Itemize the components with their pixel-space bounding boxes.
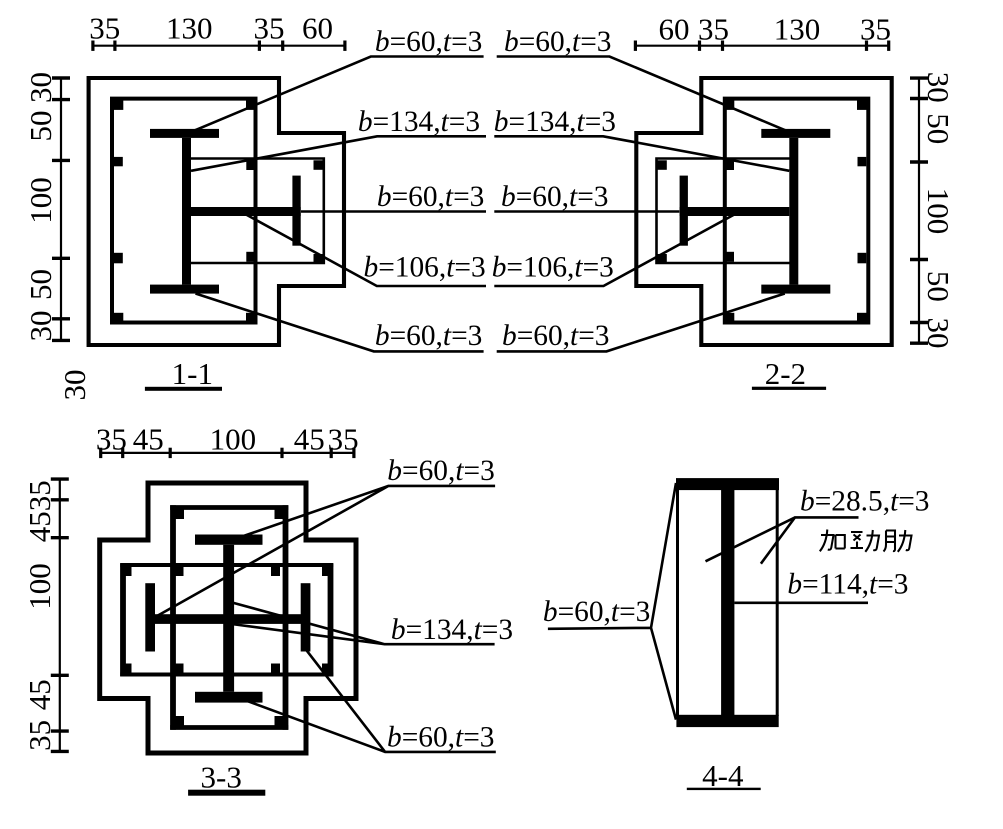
dimension line top of 3-3: 35 45 100 45 35 xyxy=(100,452,355,454)
svg-text:b=60,t=3: b=60,t=3 xyxy=(387,455,494,487)
outer concrete outline section 1-1 xyxy=(89,78,344,345)
steel tube liner horizontal section 3-3 xyxy=(120,565,333,675)
svg-text:b=60,t=3: b=60,t=3 xyxy=(375,26,482,58)
I-beam vertical web b=134 section 3-3 xyxy=(223,545,234,692)
svg-text:35: 35 xyxy=(89,11,120,46)
leader: flanges 3-3 bottom b=60,t=3 (two arrows) xyxy=(244,650,496,752)
svg-text:b=60,t=3: b=60,t=3 xyxy=(543,596,650,628)
section 1-1 body xyxy=(89,78,344,345)
svg-text:b=134,t=3: b=134,t=3 xyxy=(391,614,513,646)
leader: stiffeners 4-4 b=28.5,t=3 (two arrows) xyxy=(706,517,859,563)
steel tube liner (main) section 2-2 xyxy=(725,99,869,323)
leader: bottom flange 2-2 b=60,t=3 xyxy=(497,294,785,352)
I-beam vertical bottom flange b=60 section 2-2 xyxy=(761,285,830,294)
I-beam vertical top flange b=60 section 3-3 xyxy=(195,535,263,545)
leader: bottom flange 1-1 b=60,t=3 xyxy=(196,294,484,352)
svg-text:b=60,t=3: b=60,t=3 xyxy=(501,181,608,213)
I-beam horizontal web b=106 section 2-2 xyxy=(680,207,790,216)
svg-text:1-1: 1-1 xyxy=(172,356,213,391)
I-beam horizontal flange b=60 section 2-2 xyxy=(680,176,688,246)
leader: web 2-2 b=134,t=3 xyxy=(494,136,789,171)
svg-text:30: 30 xyxy=(57,370,92,401)
stiffener text (hand-drawn hanzi) xyxy=(820,530,912,552)
dimension line left of 1-1: 30 50 100 50 30 xyxy=(60,77,62,341)
leader: top flange 2-2 b=60,t=3 xyxy=(497,57,786,131)
svg-text:35: 35 xyxy=(22,480,57,511)
svg-text:30: 30 xyxy=(921,72,956,103)
svg-text:b=60,t=3: b=60,t=3 xyxy=(375,320,482,352)
svg-text:100: 100 xyxy=(23,177,58,224)
svg-text:130: 130 xyxy=(774,12,821,47)
svg-text:30: 30 xyxy=(921,318,956,349)
svg-text:35: 35 xyxy=(328,421,359,456)
svg-text:3-3: 3-3 xyxy=(201,760,242,795)
svg-text:60: 60 xyxy=(302,11,333,46)
leader: flanges 4-4 b=60,t=3 (two arrows) xyxy=(548,483,676,720)
leader: top flange 1-1 b=60,t=3 xyxy=(195,57,484,131)
section 2-2 body (mirror of 1-1) xyxy=(636,78,891,345)
svg-text:50: 50 xyxy=(23,269,58,300)
I-beam horizontal web b=134 section 3-3 xyxy=(150,614,307,624)
svg-text:2-2: 2-2 xyxy=(765,356,806,391)
dimension line right of 2-2: 30 50 100 50 30 xyxy=(918,77,920,344)
svg-text:b=28.5,t=3: b=28.5,t=3 xyxy=(800,486,930,518)
leader: web 1-1 b=134,t=3 xyxy=(191,136,486,171)
leader: webs 3-3 b=134,t=3 (two arrows) xyxy=(232,603,495,645)
I-beam horizontal flange b=60 section 1-1 xyxy=(292,176,300,246)
svg-text:b=60,t=3: b=60,t=3 xyxy=(504,26,611,58)
svg-text:30: 30 xyxy=(23,72,58,103)
svg-text:60: 60 xyxy=(659,12,690,47)
svg-text:50: 50 xyxy=(23,111,58,142)
svg-text:b=60,t=3: b=60,t=3 xyxy=(377,181,484,213)
svg-text:100: 100 xyxy=(210,421,257,456)
svg-text:35: 35 xyxy=(96,421,127,456)
I-beam vertical web b=134 section 1-1 xyxy=(182,138,191,285)
svg-text:45: 45 xyxy=(22,511,57,542)
svg-text:100: 100 xyxy=(22,563,57,610)
outer concrete outline section 2-2 xyxy=(636,78,891,345)
dimension line top of 2-2: 60 35 130 35 xyxy=(634,45,889,47)
I-beam vertical bottom flange b=60 section 3-3 xyxy=(195,692,263,703)
svg-text:35: 35 xyxy=(254,11,285,46)
svg-text:50: 50 xyxy=(921,271,956,302)
svg-text:100: 100 xyxy=(921,188,956,235)
bottom flange plate b=60 section 4-4 xyxy=(676,715,778,727)
corner studs of tube liners section 3-3 xyxy=(123,510,332,726)
svg-text:b=106,t=3: b=106,t=3 xyxy=(492,252,614,284)
I-beam horizontal right flange b=60 section 3-3 xyxy=(301,583,311,651)
I-beam horizontal web b=106 section 1-1 xyxy=(191,207,301,216)
web plate b=114 section 4-4 xyxy=(721,484,734,721)
dimension line left of 3-3: 35 45 100 45 35 xyxy=(59,478,61,752)
top flange plate b=60 section 4-4 xyxy=(676,478,779,490)
steel tube liner vertical section 3-3 xyxy=(170,508,288,728)
I-beam vertical bottom flange b=60 section 1-1 xyxy=(150,285,219,294)
svg-text:45: 45 xyxy=(22,679,57,710)
svg-text:35: 35 xyxy=(698,12,729,47)
svg-text:45: 45 xyxy=(294,421,325,456)
svg-text:35: 35 xyxy=(860,12,891,47)
steel tube liner (main) section 1-1 xyxy=(112,99,256,323)
leader: web 4-4 b=114,t=3 xyxy=(734,601,868,604)
leader: horizontal web 2-2 b=106,t=3 xyxy=(494,215,734,287)
svg-text:b=60,t=3: b=60,t=3 xyxy=(387,722,494,754)
svg-text:b=134,t=3: b=134,t=3 xyxy=(358,106,480,138)
svg-text:35: 35 xyxy=(22,720,57,751)
svg-text:b=114,t=3: b=114,t=3 xyxy=(787,569,908,601)
I-beam vertical top flange b=60 section 2-2 xyxy=(761,129,830,138)
leader: horizontal web 1-1 b=106,t=3 xyxy=(246,215,486,287)
outer plate outline section 4-4 xyxy=(678,489,778,716)
svg-text:45: 45 xyxy=(133,421,164,456)
svg-text:130: 130 xyxy=(166,11,213,46)
svg-text:b=106,t=3: b=106,t=3 xyxy=(364,252,486,284)
svg-text:50: 50 xyxy=(921,113,956,144)
I-beam horizontal left flange b=60 section 3-3 xyxy=(145,583,155,651)
corner studs of tube liners section 2-2 xyxy=(657,100,867,322)
steel tube liner (side bump) section 2-2 xyxy=(657,159,794,264)
svg-text:b=134,t=3: b=134,t=3 xyxy=(494,106,616,138)
svg-text:b=60,t=3: b=60,t=3 xyxy=(502,320,609,352)
corner studs of tube liners section 1-1 xyxy=(114,100,324,322)
leader: flanges 3-3 top b=60,t=3 (two arrows) xyxy=(157,486,495,616)
I-beam vertical web b=134 section 2-2 xyxy=(789,138,798,285)
leader: side flange 1-1 b=60,t=3 xyxy=(301,210,486,213)
I-beam vertical top flange b=60 section 1-1 xyxy=(150,129,219,138)
outer concrete cross outline section 3-3 xyxy=(100,483,356,753)
leader: side flange 2-2 b=60,t=3 xyxy=(494,210,679,213)
steel tube liner (side bump) section 1-1 xyxy=(187,159,324,264)
dimension line top of 1-1: 35 130 35 60 xyxy=(92,45,346,47)
svg-text:30: 30 xyxy=(23,311,58,342)
